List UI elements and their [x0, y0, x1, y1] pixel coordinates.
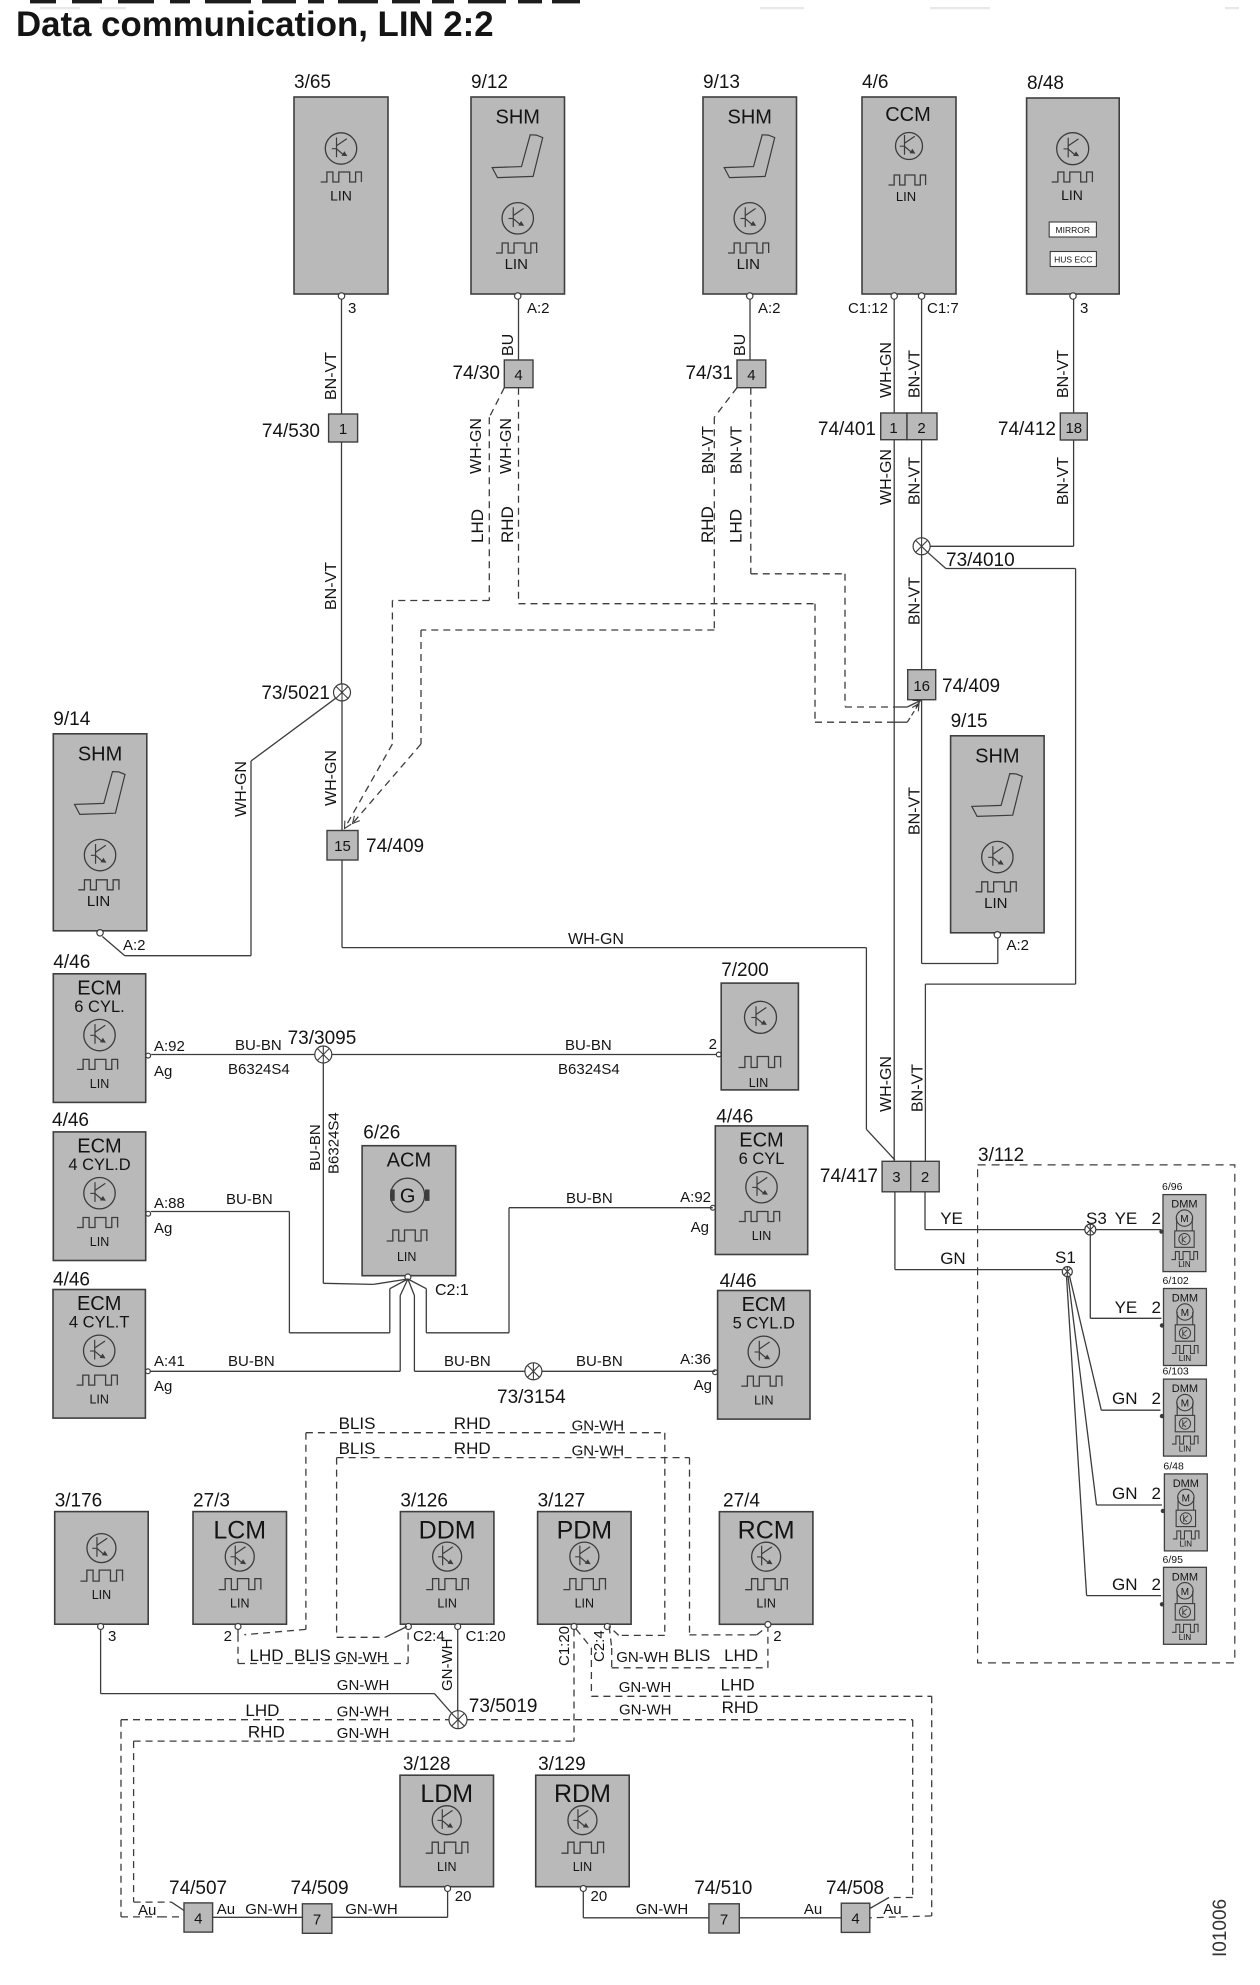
svg-text:HUS ECC: HUS ECC: [1054, 255, 1092, 265]
svg-text:Ag: Ag: [154, 1063, 172, 1080]
wire GN S1 to DMM 6/103 pin 2: [1070, 1276, 1161, 1410]
right door module RDM 3/129: [536, 1754, 630, 1905]
svg-text:LIN: LIN: [756, 1597, 775, 1611]
svg-text:RHD: RHD: [454, 1414, 491, 1433]
svg-text:BU: BU: [732, 334, 749, 356]
svg-text:BN-VT: BN-VT: [907, 457, 924, 505]
svg-text:LIN: LIN: [330, 188, 352, 204]
svg-text:BLIS: BLIS: [674, 1646, 711, 1665]
svg-text:73/5019: 73/5019: [469, 1696, 538, 1717]
svg-text:LIN: LIN: [437, 1597, 456, 1611]
svg-text:BU: BU: [500, 334, 517, 356]
svg-text:74/509: 74/509: [291, 1878, 349, 1899]
door mirror module DMM 6/102: [1160, 1275, 1207, 1366]
svg-text:ECM: ECM: [742, 1294, 786, 1316]
svg-text:BN-VT: BN-VT: [1055, 350, 1072, 398]
svg-text:BLIS: BLIS: [294, 1646, 331, 1665]
wire CCM C1:7 BN-VT to 74/401: [907, 300, 924, 414]
connector 74/507 pin 4: [169, 1878, 227, 1932]
svg-text:LHD: LHD: [721, 1676, 755, 1695]
svg-text:2: 2: [709, 1036, 717, 1053]
svg-text:4/46: 4/46: [53, 952, 90, 973]
svg-text:GN: GN: [940, 1249, 966, 1268]
svg-text:M: M: [1180, 1214, 1188, 1225]
component box 3/112 dashed outline: [978, 1145, 1235, 1663]
svg-text:A:92: A:92: [154, 1038, 185, 1055]
svg-text:YE: YE: [1115, 1298, 1138, 1317]
dashed wire into 74/508 right (RHD): [870, 1898, 913, 1919]
control module 3/176: [55, 1491, 149, 1645]
svg-text:3/65: 3/65: [294, 72, 331, 93]
dashed wire LHD BLIS GN-WH LCM 2 to DDM C2:4: [238, 1630, 408, 1666]
svg-text:CCM: CCM: [885, 104, 931, 126]
dashed wire into 74/508 right (LHD): [870, 1916, 932, 1918]
seat heating module SHM 9/14: [53, 709, 147, 936]
junction 73/3095: [288, 1028, 357, 1063]
connector 74/508 pin 4: [826, 1878, 884, 1932]
svg-text:2: 2: [1152, 1298, 1161, 1317]
svg-text:LHD: LHD: [724, 1646, 758, 1665]
svg-text:SHM: SHM: [78, 743, 122, 765]
svg-text:1: 1: [339, 421, 347, 438]
connector 74/30 pin 4: [452, 360, 533, 388]
svg-text:3/127: 3/127: [538, 1491, 586, 1512]
svg-text:20: 20: [591, 1888, 608, 1905]
svg-text:15: 15: [334, 838, 351, 855]
wire BU-BN junction 73/3095 down to ACM C2:1: [307, 1063, 408, 1284]
splice S1: [1055, 1248, 1076, 1277]
dashed wire RHD BN-VT 74/31 to 74/409-15: [350, 388, 737, 826]
svg-text:BU-BN: BU-BN: [576, 1353, 623, 1370]
passenger door module PDM 3/127: [538, 1491, 632, 1666]
svg-text:Au: Au: [883, 1901, 901, 1918]
svg-text:2: 2: [917, 420, 925, 437]
wire 9/13 A:2 BU to 74/31: [732, 300, 750, 361]
svg-text:GN-WH: GN-WH: [619, 1679, 672, 1696]
control module 7/200: [709, 960, 799, 1090]
svg-text:M: M: [1181, 1587, 1189, 1598]
wire BU-BN ACM C2:1 to ECM 6 CYL A:92 (right): [408, 1190, 713, 1333]
svg-text:LIN: LIN: [90, 1235, 109, 1249]
svg-text:GN: GN: [1112, 1389, 1138, 1408]
svg-text:4/46: 4/46: [716, 1107, 753, 1128]
dashed wire Au into 74/507 (RHD): [134, 1902, 184, 1910]
svg-text:4: 4: [514, 367, 522, 384]
svg-text:7/200: 7/200: [721, 960, 769, 981]
svg-text:BN-VT: BN-VT: [323, 352, 340, 400]
svg-text:A:2: A:2: [1007, 937, 1030, 954]
svg-text:WH-GN: WH-GN: [878, 342, 895, 398]
svg-text:7: 7: [313, 1912, 321, 1929]
svg-text:LHD: LHD: [245, 1701, 279, 1720]
wire BN-VT 74/401-2 to junction 73/4010: [907, 440, 924, 547]
wire GN S1 to DMM 6/95 pin 2: [1067, 1276, 1162, 1595]
svg-text:RHD: RHD: [248, 1723, 285, 1742]
svg-text:74/31: 74/31: [685, 363, 733, 384]
svg-text:73/3154: 73/3154: [497, 1387, 566, 1408]
connector 74/417 pins 3 2: [820, 1161, 939, 1192]
connector 74/401 pins 1 2: [818, 413, 937, 440]
wire BN-VT branch 73/4010 to 74/417-2: [910, 552, 1076, 1161]
left door module LDM 3/128: [400, 1754, 494, 1905]
svg-text:74/510: 74/510: [694, 1878, 752, 1899]
control module 3/65: [294, 72, 388, 317]
svg-text:B6324S4: B6324S4: [326, 1112, 343, 1174]
svg-text:LIN: LIN: [1179, 1445, 1192, 1454]
svg-text:M: M: [1181, 1399, 1189, 1410]
svg-text:LIN: LIN: [575, 1597, 594, 1611]
engine control module ECM 6 CYL 4/46 (right): [680, 1107, 808, 1255]
svg-text:BU-BN: BU-BN: [228, 1353, 275, 1370]
svg-text:S1: S1: [1055, 1248, 1076, 1267]
svg-text:LIN: LIN: [230, 1597, 249, 1611]
svg-text:YE: YE: [1115, 1209, 1138, 1228]
svg-text:LIN: LIN: [984, 895, 1007, 912]
svg-text:74/530: 74/530: [262, 421, 320, 442]
dashed wire LHD WH-GN 74/30 to 74/409-15: [341, 388, 504, 831]
svg-text:LIN: LIN: [505, 256, 528, 273]
svg-text:74/401: 74/401: [818, 419, 876, 440]
mirror control module 8/48: [1027, 73, 1120, 317]
svg-text:DDM: DDM: [419, 1517, 476, 1545]
svg-text:C1:20: C1:20: [466, 1628, 506, 1645]
svg-text:3/126: 3/126: [400, 1491, 448, 1512]
svg-text:LCM: LCM: [213, 1517, 266, 1545]
svg-text:GN-WH: GN-WH: [619, 1702, 672, 1719]
svg-text:4: 4: [194, 1911, 202, 1928]
svg-text:6 CYL.: 6 CYL.: [74, 998, 124, 1016]
svg-text:WH-GN: WH-GN: [568, 931, 624, 948]
wire 9/12 A:2 BU to 74/30: [500, 300, 519, 361]
svg-text:74/417: 74/417: [820, 1166, 878, 1187]
svg-text:C1:20: C1:20: [556, 1626, 573, 1666]
svg-text:DMM: DMM: [1172, 1571, 1198, 1583]
svg-text:WH-GN: WH-GN: [323, 750, 340, 806]
svg-text:BN-VT: BN-VT: [700, 426, 717, 474]
engine control module ECM 4 CYL.D 4/46: [52, 1110, 185, 1261]
wire BN-VT 74/530 to junction 73/5021: [323, 442, 342, 692]
svg-text:Ag: Ag: [154, 1378, 172, 1395]
seat heating module SHM 9/12: [471, 72, 565, 299]
wire YE 74/417-2 to S3 and DMM 6/96 pin 2: [925, 1192, 1161, 1230]
svg-text:ECM: ECM: [77, 1293, 121, 1315]
svg-text:LHD: LHD: [250, 1646, 284, 1665]
driver door module DDM 3/126: [400, 1491, 505, 1645]
junction 73/5019: [449, 1696, 537, 1729]
svg-text:A:88: A:88: [154, 1195, 185, 1212]
svg-text:LHD: LHD: [727, 509, 746, 543]
svg-text:Ag: Ag: [691, 1219, 709, 1236]
seat heating module SHM 9/13: [703, 72, 797, 299]
svg-text:6/48: 6/48: [1163, 1460, 1184, 1472]
svg-text:Ag: Ag: [694, 1377, 712, 1394]
svg-text:GN-WH: GN-WH: [245, 1901, 298, 1918]
svg-text:LDM: LDM: [420, 1780, 473, 1808]
svg-text:BN-VT: BN-VT: [907, 787, 924, 835]
svg-text:G: G: [400, 1186, 416, 1208]
svg-text:WH-GN: WH-GN: [878, 1056, 895, 1112]
svg-text:MIRROR: MIRROR: [1056, 225, 1090, 235]
dashed wire Au into 74/507 (LHD): [121, 1902, 184, 1919]
connector 74/510 pin 7: [694, 1878, 752, 1933]
svg-text:1: 1: [889, 420, 897, 437]
svg-text:WH-GN: WH-GN: [878, 449, 895, 505]
engine control module ECM 6 CYL. 4/46 (left): [53, 952, 185, 1102]
connector 74/409 pin 16: [908, 670, 1000, 700]
svg-text:GN: GN: [1112, 1484, 1138, 1503]
svg-text:SHM: SHM: [975, 745, 1019, 767]
wire BU-BN ACM C2:1 to junction 73/3154 and ECM 5 CYL.D A:36: [408, 1279, 715, 1371]
wire BU-BN ECM 6CYL A:92 to junction 73/3095: [151, 1037, 315, 1078]
svg-text:9/15: 9/15: [951, 711, 988, 732]
svg-text:GN-WH: GN-WH: [335, 1649, 388, 1666]
connector 74/31 pin 4: [685, 360, 765, 388]
cut-off header text remnants: [30, 0, 1239, 9]
svg-text:2: 2: [1152, 1575, 1161, 1594]
svg-text:6/103: 6/103: [1163, 1366, 1189, 1378]
svg-text:74/409: 74/409: [366, 836, 424, 857]
svg-text:6/102: 6/102: [1163, 1275, 1189, 1287]
svg-text:LIN: LIN: [896, 189, 916, 204]
svg-text:GN-WH: GN-WH: [616, 1649, 669, 1666]
connector 74/409 pin 15: [327, 831, 424, 861]
svg-text:8/48: 8/48: [1027, 73, 1064, 94]
svg-text:LIN: LIN: [754, 1394, 773, 1408]
wire GN-WH 74/507 to 74/509 to LDM 20: [213, 1892, 448, 1919]
wire YE S3 to DMM 6/102 pin 2: [1090, 1235, 1161, 1318]
svg-text:LIN: LIN: [92, 1588, 111, 1602]
svg-text:74/507: 74/507: [169, 1878, 227, 1899]
svg-text:LIN: LIN: [1179, 1633, 1192, 1642]
svg-text:WH-GN: WH-GN: [468, 418, 485, 474]
svg-text:M: M: [1181, 1308, 1189, 1319]
svg-text:BU-BN: BU-BN: [566, 1190, 613, 1207]
svg-text:WH-GN: WH-GN: [233, 761, 250, 817]
svg-text:C1:7: C1:7: [927, 300, 959, 317]
svg-text:7: 7: [720, 1912, 728, 1929]
dashed wire GN-WH LHD PDM C1:20 to 74/508: [576, 1629, 932, 1916]
svg-text:4/46: 4/46: [720, 1271, 757, 1292]
connector 74/530 pin 1: [262, 414, 358, 442]
svg-text:BN-VT: BN-VT: [907, 577, 924, 625]
svg-text:LIN: LIN: [437, 1860, 456, 1874]
svg-text:27/3: 27/3: [193, 1491, 230, 1512]
svg-text:A:92: A:92: [680, 1189, 711, 1206]
wire WH-GN 74/401-1 down to 74/417-3: [878, 440, 895, 1162]
svg-text:Data communication, LIN 2:2: Data communication, LIN 2:2: [16, 5, 494, 44]
svg-text:RHD: RHD: [722, 1698, 759, 1717]
svg-text:4/46: 4/46: [53, 1270, 90, 1291]
svg-text:C1:12: C1:12: [848, 300, 888, 317]
wire WH-GN junction 73/5021 to 74/409-15: [323, 701, 342, 831]
svg-text:BU-BN: BU-BN: [565, 1037, 612, 1054]
svg-text:4/6: 4/6: [862, 72, 888, 93]
svg-text:GN-WH: GN-WH: [345, 1901, 398, 1918]
door mirror module DMM 6/96: [1159, 1181, 1206, 1272]
svg-text:3/176: 3/176: [55, 1491, 103, 1512]
svg-text:LIN: LIN: [1178, 1260, 1191, 1269]
svg-text:DMM: DMM: [1171, 1199, 1197, 1211]
svg-text:6/26: 6/26: [363, 1123, 400, 1144]
svg-text:LIN: LIN: [397, 1250, 416, 1264]
svg-text:74/412: 74/412: [998, 419, 1056, 440]
svg-text:LIN: LIN: [737, 256, 760, 273]
svg-text:74/30: 74/30: [452, 363, 500, 384]
audio control module ACM 6/26: [362, 1123, 469, 1299]
svg-text:GN-WH: GN-WH: [337, 1704, 390, 1721]
svg-text:DMM: DMM: [1173, 1478, 1199, 1490]
svg-text:LIN: LIN: [749, 1076, 768, 1090]
svg-text:RHD: RHD: [698, 506, 717, 543]
svg-text:LIN: LIN: [90, 1077, 109, 1091]
svg-text:74/508: 74/508: [826, 1878, 884, 1899]
junction 73/3154: [497, 1363, 566, 1408]
wire BU-BN junction 73/3095 to 7/200 pin 2: [332, 1037, 717, 1078]
wire 3/65 pin3 BN-VT to 74/530: [323, 300, 342, 415]
svg-text:PDM: PDM: [557, 1517, 613, 1545]
wire GN-WH 3/176 pin3 to junction 73/5019: [101, 1630, 455, 1718]
svg-text:27/4: 27/4: [723, 1491, 760, 1512]
svg-text:9/13: 9/13: [703, 72, 740, 93]
svg-text:SHM: SHM: [496, 107, 540, 129]
svg-text:Au: Au: [804, 1901, 822, 1918]
svg-text:RDM: RDM: [554, 1780, 611, 1808]
svg-text:4: 4: [851, 1911, 859, 1928]
dashed wire RHD GN-WH row to PDM C1:20 and 74/507: [134, 1723, 574, 1903]
wire GN-WH DDM C1:20 to junction 73/5019: [439, 1630, 458, 1712]
svg-text:2: 2: [1152, 1209, 1161, 1228]
svg-text:B6324S4: B6324S4: [558, 1061, 620, 1078]
wire CCM C1:12 WH-GN to 74/401: [878, 300, 895, 414]
svg-text:ECM: ECM: [77, 1136, 121, 1158]
svg-text:A:2: A:2: [527, 300, 550, 317]
svg-text:GN-WH: GN-WH: [337, 1725, 390, 1742]
svg-text:ECM: ECM: [739, 1130, 783, 1152]
svg-text:A:2: A:2: [758, 300, 781, 317]
svg-text:M: M: [1182, 1493, 1190, 1504]
svg-text:BN-VT: BN-VT: [729, 426, 746, 474]
svg-text:4/46: 4/46: [52, 1110, 89, 1131]
svg-text:20: 20: [455, 1888, 472, 1905]
svg-text:9/12: 9/12: [471, 72, 508, 93]
dashed wire LHD GN-WH row through 73/5019 to PDM C1:20 and 74/508: [121, 1630, 913, 1917]
svg-text:GN-WH: GN-WH: [337, 1677, 390, 1694]
svg-text:6/96: 6/96: [1162, 1181, 1183, 1193]
svg-text:WH-GN: WH-GN: [498, 418, 515, 474]
wire BN-VT 74/409-16 to SHM 9/15 A:2: [907, 700, 998, 964]
svg-text:BN-VT: BN-VT: [323, 562, 340, 610]
svg-text:RHD: RHD: [498, 506, 517, 543]
svg-text:6 CYL: 6 CYL: [739, 1150, 785, 1168]
door mirror module DMM 6/95: [1160, 1554, 1207, 1645]
svg-text:A:41: A:41: [154, 1353, 185, 1370]
svg-text:LIN: LIN: [752, 1229, 771, 1243]
dashed wire BLIS RHD GN-WH LCM 2 to PDM C2:4 (row1): [238, 1414, 665, 1635]
svg-text:ECM: ECM: [77, 977, 121, 999]
svg-text:3: 3: [348, 300, 356, 317]
svg-text:Au: Au: [138, 1902, 156, 1919]
svg-text:73/5021: 73/5021: [261, 683, 330, 704]
svg-text:3/112: 3/112: [978, 1145, 1024, 1166]
svg-text:BN-VT: BN-VT: [907, 350, 924, 398]
svg-text:3: 3: [892, 1169, 900, 1186]
engine control module ECM 4 CYL.T 4/46: [53, 1270, 185, 1419]
svg-text:B6324S4: B6324S4: [228, 1061, 290, 1078]
svg-text:LIN: LIN: [1061, 187, 1083, 203]
svg-text:BU-BN: BU-BN: [235, 1037, 282, 1054]
engine control module ECM 5 CYL.D 4/46: [680, 1271, 810, 1419]
door mirror module DMM 6/103: [1160, 1366, 1207, 1457]
svg-text:I01006: I01006: [1210, 1899, 1231, 1957]
dashed wire LHD BN-VT 74/31 to 74/409-16: [727, 388, 923, 707]
svg-text:2: 2: [1152, 1389, 1161, 1408]
svg-text:16: 16: [913, 678, 930, 695]
connector 74/412 pin 18: [998, 413, 1087, 440]
connector 74/509 pin 7: [291, 1878, 349, 1933]
svg-text:2: 2: [224, 1628, 232, 1645]
dashed wire GN-WH BLIS LHD PDM C2:4 to RCM 2: [609, 1627, 768, 1668]
rear control module RCM 27/4: [719, 1491, 813, 1645]
junction 73/4010: [913, 538, 1015, 571]
wire BN-VT 74/412 to junction 73/4010: [930, 440, 1074, 546]
svg-text:GN-WH: GN-WH: [572, 1443, 625, 1460]
svg-text:GN-WH: GN-WH: [439, 1639, 456, 1692]
svg-text:LHD: LHD: [468, 509, 487, 543]
svg-text:4: 4: [747, 367, 755, 384]
wire WH-GN junction 73/5021 to SHM 9/14 A:2: [102, 698, 335, 956]
svg-text:A:2: A:2: [123, 937, 146, 954]
svg-text:3: 3: [108, 1628, 116, 1645]
svg-text:4 CYL.T: 4 CYL.T: [69, 1314, 130, 1332]
svg-text:BLIS: BLIS: [339, 1414, 376, 1433]
seat heating module SHM 9/15: [951, 711, 1045, 938]
svg-text:ACM: ACM: [387, 1150, 431, 1172]
door mirror module DMM 6/48: [1161, 1460, 1208, 1551]
svg-text:DMM: DMM: [1172, 1383, 1198, 1395]
svg-text:BU-BN: BU-BN: [444, 1353, 491, 1370]
junction 73/5021: [261, 683, 350, 704]
svg-text:A:36: A:36: [680, 1351, 711, 1368]
svg-text:3/128: 3/128: [403, 1754, 451, 1775]
svg-text:LIN: LIN: [1179, 1354, 1192, 1363]
svg-text:2: 2: [1152, 1484, 1161, 1503]
svg-text:3/129: 3/129: [538, 1754, 586, 1775]
svg-text:LIN: LIN: [1180, 1539, 1193, 1548]
svg-text:BN-VT: BN-VT: [1055, 457, 1072, 505]
wire BN-VT junction 73/4010 down to 74/409-16: [907, 555, 924, 670]
svg-text:6/95: 6/95: [1163, 1554, 1184, 1566]
svg-text:18: 18: [1065, 420, 1082, 437]
splice S3: [1085, 1209, 1107, 1235]
svg-text:GN: GN: [1112, 1575, 1138, 1594]
svg-text:9/14: 9/14: [53, 709, 90, 730]
svg-text:LIN: LIN: [573, 1860, 592, 1874]
svg-text:Au: Au: [217, 1901, 235, 1918]
svg-text:3: 3: [1080, 300, 1088, 317]
wire WH-GN 74/409-15 to 74/417-3: [342, 860, 895, 1160]
svg-text:BU-BN: BU-BN: [307, 1124, 324, 1171]
svg-text:LIN: LIN: [89, 1393, 108, 1407]
wire BU-BN ECM 4 CYL.T A:41 to ACM C2:1: [151, 1279, 408, 1371]
svg-text:YE: YE: [940, 1209, 963, 1228]
svg-text:BLIS: BLIS: [339, 1439, 376, 1458]
wire GN S1 to DMM 6/48 pin 2: [1068, 1276, 1162, 1505]
svg-text:Ag: Ag: [154, 1220, 172, 1237]
svg-text:LIN: LIN: [87, 893, 110, 910]
wire GN 74/417-3 to S1: [895, 1192, 1062, 1270]
wire 8/48 pin3 BN-VT to 74/412: [1055, 300, 1074, 414]
left control module LCM 27/3: [193, 1491, 287, 1645]
